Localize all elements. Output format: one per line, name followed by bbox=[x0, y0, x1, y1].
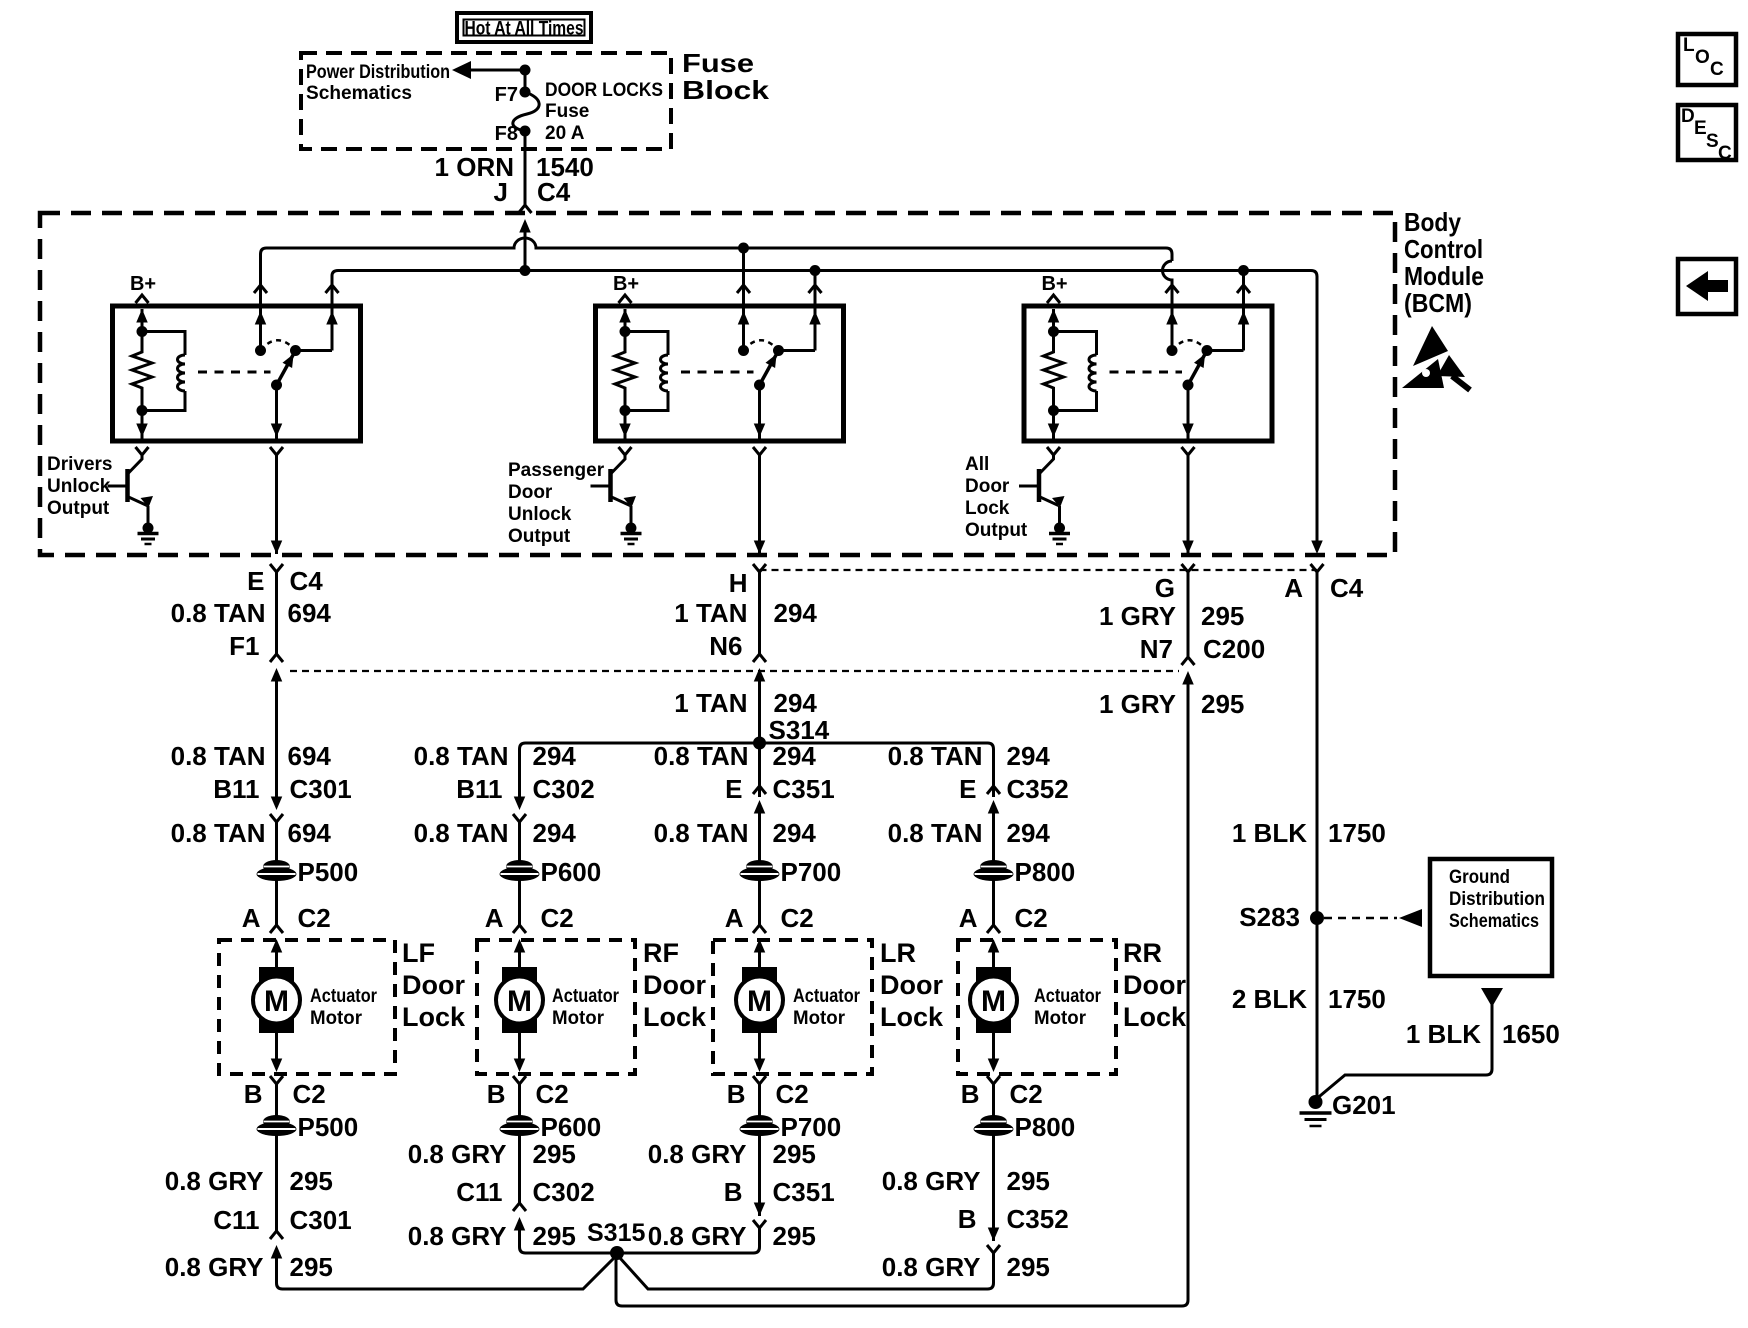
wire LF motor return upper bbox=[275, 1084, 278, 1119]
svg-text:P700: P700 bbox=[781, 1112, 842, 1142]
svg-text:RR: RR bbox=[1123, 938, 1162, 968]
svg-text:M: M bbox=[981, 985, 1006, 1018]
switch armature K1 bbox=[277, 351, 296, 386]
icon box back-arrow bbox=[1678, 259, 1736, 314]
coil relay K1 bbox=[142, 332, 185, 356]
wire switch output K3 bbox=[1187, 385, 1190, 441]
svg-text:0.8 TAN: 0.8 TAN bbox=[888, 818, 983, 848]
svg-text:1 BLK: 1 BLK bbox=[1406, 1019, 1481, 1049]
svg-text:Lock: Lock bbox=[643, 1002, 707, 1032]
connector coil output below K1 bbox=[136, 447, 149, 455]
svg-text:A: A bbox=[959, 903, 978, 933]
svg-text:B11: B11 bbox=[456, 774, 502, 804]
svg-text:0.8 TAN: 0.8 TAN bbox=[171, 598, 266, 628]
svg-text:Motor: Motor bbox=[310, 1008, 363, 1029]
coupling link K1 bbox=[198, 371, 271, 374]
wire RR mid bbox=[992, 813, 995, 863]
LF door lock dashed box bbox=[219, 940, 395, 1074]
svg-text:C200: C200 bbox=[1203, 634, 1265, 664]
wire coil to output K2 bbox=[624, 411, 627, 442]
actuator motor M (RR) bbox=[976, 967, 1011, 1033]
svg-text:1650: 1650 bbox=[1502, 1019, 1560, 1049]
svg-text:C2: C2 bbox=[1015, 903, 1048, 933]
svg-text:2 BLK: 2 BLK bbox=[1232, 984, 1307, 1014]
coil relay K2 bbox=[625, 332, 668, 356]
svg-text:Passenger: Passenger bbox=[508, 460, 605, 481]
connector P500 (top) bbox=[263, 860, 290, 873]
actuator motor M (RF) bbox=[502, 967, 537, 1033]
connector P800 (bottom) bbox=[980, 1115, 1007, 1128]
svg-text:A: A bbox=[242, 903, 261, 933]
svg-text:B11: B11 bbox=[213, 774, 259, 804]
svg-text:Fuse: Fuse bbox=[545, 101, 589, 122]
svg-text:294: 294 bbox=[533, 741, 577, 771]
svg-text:LR: LR bbox=[880, 938, 916, 968]
svg-text:0.8 GRY: 0.8 GRY bbox=[882, 1252, 981, 1282]
svg-text:C2: C2 bbox=[298, 903, 331, 933]
svg-text:Body: Body bbox=[1404, 207, 1461, 237]
svg-text:E: E bbox=[959, 774, 976, 804]
svg-text:Output: Output bbox=[508, 526, 571, 547]
C4 connector dashed line bbox=[760, 569, 1318, 571]
svg-text:0.8 GRY: 0.8 GRY bbox=[882, 1166, 981, 1196]
connector F1 at C200 bbox=[270, 654, 283, 662]
svg-text:294: 294 bbox=[773, 741, 817, 771]
svg-text:B: B bbox=[724, 1177, 743, 1207]
wire into LF motor bbox=[275, 952, 278, 967]
svg-text:P500: P500 bbox=[298, 857, 359, 887]
connector C351 return bbox=[754, 1203, 766, 1217]
wire relay output G inside BCM bbox=[1187, 455, 1190, 554]
wire RR motor out bbox=[992, 1033, 995, 1059]
wire bus2 to relay3 right bbox=[1242, 271, 1245, 297]
wire P700 to A/C2 bbox=[758, 879, 761, 925]
wire RF motor out bbox=[518, 1033, 521, 1059]
svg-text:295: 295 bbox=[1007, 1252, 1050, 1282]
wire switch output K1 bbox=[275, 385, 278, 441]
connector C302 bbox=[514, 797, 526, 811]
node coil top K2 bbox=[620, 326, 631, 337]
connector A/C4 at BCM border bbox=[1311, 541, 1323, 555]
node S314 bbox=[753, 737, 766, 750]
connector J/C4 into BCM bbox=[519, 205, 532, 213]
svg-text:F7: F7 bbox=[495, 84, 518, 106]
wire A below BCM bbox=[1316, 572, 1319, 918]
svg-text:(BCM): (BCM) bbox=[1404, 288, 1472, 318]
svg-text:M: M bbox=[507, 985, 532, 1018]
svg-text:0.8 TAN: 0.8 TAN bbox=[171, 741, 266, 771]
node switch common K3 bbox=[1167, 345, 1178, 356]
wire relay K3 right contact bbox=[1242, 296, 1245, 351]
svg-text:C4: C4 bbox=[537, 177, 571, 207]
svg-text:C301: C301 bbox=[290, 774, 352, 804]
svg-text:B: B bbox=[961, 1079, 980, 1109]
svg-text:Module: Module bbox=[1404, 261, 1484, 291]
svg-text:A: A bbox=[485, 903, 504, 933]
svg-text:Actuator: Actuator bbox=[552, 986, 620, 1007]
svg-text:C2: C2 bbox=[781, 903, 814, 933]
svg-text:C4: C4 bbox=[1330, 573, 1364, 603]
svg-text:Power Distribution: Power Distribution bbox=[306, 62, 450, 83]
wire LF motor out bbox=[275, 1033, 278, 1059]
svg-text:M: M bbox=[747, 985, 772, 1018]
svg-text:295: 295 bbox=[773, 1139, 816, 1169]
svg-text:Drivers: Drivers bbox=[47, 454, 113, 475]
svg-text:0.8 GRY: 0.8 GRY bbox=[408, 1139, 507, 1169]
svg-text:Motor: Motor bbox=[552, 1008, 605, 1029]
svg-text:Motor: Motor bbox=[1034, 1008, 1087, 1029]
svg-text:H: H bbox=[729, 568, 748, 598]
svg-text:294: 294 bbox=[774, 688, 818, 718]
ground for Q3 bbox=[1054, 523, 1065, 534]
actuator motor M (LR) bbox=[742, 967, 777, 1033]
connector G/C4 at BCM border bbox=[1182, 541, 1194, 555]
connector C302 return bbox=[513, 1203, 526, 1211]
connector C352 bbox=[987, 786, 1000, 794]
svg-text:B+: B+ bbox=[613, 273, 639, 295]
node switch pivot K3 bbox=[1202, 345, 1213, 356]
svg-text:Lock: Lock bbox=[402, 1002, 466, 1032]
node armature K3 bbox=[1183, 380, 1194, 391]
connector C301 bbox=[271, 797, 283, 811]
wire LF to P500 bbox=[275, 822, 278, 863]
svg-text:C302: C302 bbox=[533, 1177, 595, 1207]
svg-text:C2: C2 bbox=[1010, 1079, 1043, 1109]
svg-text:S283: S283 bbox=[1239, 902, 1300, 932]
svg-text:0.8 TAN: 0.8 TAN bbox=[414, 818, 509, 848]
resistor relay K3 bbox=[1044, 332, 1064, 411]
svg-text:N6: N6 bbox=[709, 631, 742, 661]
wire LR tail bbox=[617, 1228, 760, 1253]
svg-text:RF: RF bbox=[643, 938, 679, 968]
transistor Q3 bbox=[1037, 469, 1042, 502]
wire switch output K2 bbox=[758, 385, 761, 441]
switch armature K2 bbox=[760, 351, 779, 386]
Ground Distribution Schematics box bbox=[1430, 859, 1552, 976]
icon box LOC bbox=[1678, 34, 1736, 85]
wire relay K3 middle bbox=[1171, 296, 1174, 351]
connector C301 return bbox=[270, 1231, 283, 1239]
node armature K1 bbox=[271, 380, 282, 391]
wire relay K1 right contact bbox=[331, 296, 334, 351]
connector P700 (top) bbox=[746, 860, 773, 873]
connector P700 (bottom) bbox=[746, 1115, 773, 1128]
wire 1650 from Ground Distribution bbox=[1318, 1004, 1493, 1098]
svg-text:0.8 TAN: 0.8 TAN bbox=[171, 818, 266, 848]
wire S315 to G return bbox=[616, 678, 1188, 1306]
svg-text:0.8 GRY: 0.8 GRY bbox=[648, 1139, 747, 1169]
RF door lock dashed box bbox=[477, 940, 635, 1074]
svg-text:Control: Control bbox=[1404, 234, 1483, 264]
svg-text:0.8 TAN: 0.8 TAN bbox=[888, 741, 983, 771]
svg-text:Door: Door bbox=[965, 476, 1010, 497]
svg-text:295: 295 bbox=[1007, 1166, 1050, 1196]
wire P500 to A/C2 bbox=[275, 879, 278, 925]
svg-text:Actuator: Actuator bbox=[1034, 986, 1102, 1007]
coupling link K3 bbox=[1110, 371, 1183, 374]
svg-text:G: G bbox=[1155, 573, 1175, 603]
svg-text:C302: C302 bbox=[533, 774, 595, 804]
ground for Q1 bbox=[143, 523, 154, 534]
svg-text:P700: P700 bbox=[781, 857, 842, 887]
wire LR motor return upper bbox=[758, 1084, 761, 1119]
svg-text:694: 694 bbox=[288, 741, 332, 771]
svg-text:Door: Door bbox=[1123, 970, 1186, 1000]
wire bus2 to relay2 right bbox=[814, 271, 817, 297]
svg-text:C2: C2 bbox=[776, 1079, 809, 1109]
svg-text:O: O bbox=[1695, 47, 1710, 68]
wire relay output E inside BCM bbox=[275, 455, 278, 554]
wire relay output H inside BCM bbox=[758, 455, 761, 554]
svg-text:Door: Door bbox=[643, 970, 706, 1000]
wire E to LF branch bbox=[275, 681, 278, 797]
coupling link K2 bbox=[681, 371, 754, 374]
svg-text:C2: C2 bbox=[536, 1079, 569, 1109]
arrow to Power Distribution Schematics bbox=[452, 61, 471, 79]
connector E/C4 at BCM border bbox=[271, 541, 283, 555]
connector B+ into relay K2 bbox=[619, 295, 632, 303]
svg-text:B+: B+ bbox=[130, 273, 156, 295]
svg-text:P800: P800 bbox=[1015, 857, 1076, 887]
connector switch output below K1 bbox=[270, 447, 283, 455]
svg-text:694: 694 bbox=[288, 818, 332, 848]
svg-text:P600: P600 bbox=[541, 1112, 602, 1142]
svg-text:1 TAN: 1 TAN bbox=[674, 598, 747, 628]
node coil top K3 bbox=[1048, 326, 1059, 337]
svg-text:0.8 TAN: 0.8 TAN bbox=[654, 818, 749, 848]
svg-text:694: 694 bbox=[288, 598, 332, 628]
node G201 bbox=[1309, 1095, 1323, 1109]
RR door lock dashed box bbox=[958, 940, 1116, 1074]
svg-text:B: B bbox=[487, 1079, 506, 1109]
wire RF motor return upper bbox=[518, 1084, 521, 1119]
node coil bottom K3 bbox=[1048, 405, 1059, 416]
wire LR return mid bbox=[758, 1134, 761, 1216]
arrow out of Ground Distribution box bbox=[1481, 988, 1503, 1007]
connector N6 at C200 bbox=[753, 654, 766, 662]
wire RR motor return upper bbox=[992, 1084, 995, 1119]
svg-text:1750: 1750 bbox=[1328, 984, 1386, 1014]
svg-text:1750: 1750 bbox=[1328, 818, 1386, 848]
svg-text:C352: C352 bbox=[1007, 1204, 1069, 1234]
svg-text:1 TAN: 1 TAN bbox=[674, 688, 747, 718]
svg-text:C: C bbox=[1710, 59, 1724, 80]
connector P600 (top) bbox=[506, 860, 533, 873]
wire E below BCM bbox=[275, 572, 278, 655]
connector B+ into relay K3 bbox=[1047, 295, 1060, 303]
wire RF mid bbox=[518, 822, 521, 863]
svg-text:F1: F1 bbox=[229, 631, 259, 661]
connector N7 at C200 bbox=[1182, 657, 1195, 665]
connector coil output below K2 bbox=[619, 447, 632, 455]
wire RF return mid bbox=[518, 1134, 521, 1204]
svg-text:Door: Door bbox=[402, 970, 465, 1000]
dashed reference to Ground Distribution bbox=[1324, 917, 1397, 920]
svg-text:C4: C4 bbox=[290, 566, 324, 596]
ESD sensitivity symbol bbox=[1413, 326, 1448, 366]
svg-text:0.8 GRY: 0.8 GRY bbox=[408, 1221, 507, 1251]
upper B+ bus bbox=[261, 238, 1173, 296]
wire relay K2 middle bbox=[742, 296, 745, 351]
ground symbol G201 bbox=[1300, 1111, 1332, 1115]
svg-text:E: E bbox=[247, 566, 264, 596]
S314 distribution bus bbox=[520, 743, 994, 797]
transistor Q1 bbox=[125, 469, 130, 502]
wire LR mid bbox=[758, 813, 761, 863]
svg-text:295: 295 bbox=[290, 1166, 333, 1196]
svg-text:J: J bbox=[494, 177, 508, 207]
svg-text:D: D bbox=[1681, 106, 1695, 127]
connector P600 (bottom) bbox=[506, 1115, 533, 1128]
svg-text:C11: C11 bbox=[213, 1205, 259, 1235]
wire into RR motor bbox=[992, 952, 995, 967]
svg-text:Motor: Motor bbox=[793, 1008, 846, 1029]
svg-text:Block: Block bbox=[682, 75, 770, 105]
node: bus tap relay 2 coil bbox=[738, 243, 749, 254]
svg-text:Distribution: Distribution bbox=[1449, 889, 1545, 910]
wire G below BCM bbox=[1187, 572, 1190, 658]
svg-text:295: 295 bbox=[533, 1221, 576, 1251]
connector A/C2 LR bbox=[753, 925, 766, 933]
node switch common K2 bbox=[738, 345, 749, 356]
svg-text:B: B bbox=[727, 1079, 746, 1109]
wire relay K2 right contact bbox=[814, 296, 817, 351]
svg-text:C351: C351 bbox=[773, 774, 835, 804]
icon box DESC bbox=[1678, 105, 1736, 160]
svg-text:P500: P500 bbox=[298, 1112, 359, 1142]
wire into RF motor bbox=[518, 952, 521, 967]
fuse F8 DOOR LOCKS 20 A bbox=[513, 92, 539, 131]
svg-text:B+: B+ bbox=[1041, 273, 1067, 295]
node coil bottom K1 bbox=[137, 405, 148, 416]
node: tap junction bbox=[520, 65, 531, 76]
switch armature K3 bbox=[1188, 351, 1207, 386]
svg-text:LF: LF bbox=[402, 938, 435, 968]
wire P800 to A/C2 bbox=[992, 879, 995, 925]
connector P500 (bottom) bbox=[263, 1115, 290, 1128]
svg-text:Output: Output bbox=[965, 520, 1028, 541]
svg-text:0.8 GRY: 0.8 GRY bbox=[165, 1252, 264, 1282]
svg-text:Schematics: Schematics bbox=[306, 83, 412, 104]
connector coil output below K3 bbox=[1047, 447, 1060, 455]
switch throw arc K3 bbox=[1172, 340, 1207, 350]
svg-text:Lock: Lock bbox=[880, 1002, 944, 1032]
svg-text:B: B bbox=[244, 1079, 263, 1109]
node switch pivot K1 bbox=[290, 345, 301, 356]
svg-text:1 GRY: 1 GRY bbox=[1099, 601, 1176, 631]
connector switch output below K2 bbox=[753, 447, 766, 455]
svg-text:P800: P800 bbox=[1015, 1112, 1076, 1142]
coil relay K3 bbox=[1054, 332, 1097, 356]
svg-text:E: E bbox=[1694, 118, 1707, 139]
node coil top K1 bbox=[137, 326, 148, 337]
label box: Hot At All Times bbox=[457, 13, 591, 42]
relay K2 box bbox=[596, 306, 844, 441]
LR door lock dashed box bbox=[713, 940, 872, 1074]
svg-text:F8: F8 bbox=[495, 123, 518, 145]
wire RR return mid bbox=[992, 1134, 995, 1241]
svg-text:Unlock: Unlock bbox=[508, 504, 572, 525]
svg-text:E: E bbox=[725, 774, 742, 804]
svg-text:295: 295 bbox=[773, 1221, 816, 1251]
svg-text:L: L bbox=[1683, 35, 1695, 56]
actuator motor M (LF) bbox=[259, 967, 294, 1033]
connector H/C4 at BCM border bbox=[754, 541, 766, 555]
relay K3 box bbox=[1024, 306, 1272, 441]
svg-text:Lock: Lock bbox=[1123, 1002, 1187, 1032]
connector switch output below K3 bbox=[1182, 447, 1195, 455]
svg-text:294: 294 bbox=[773, 818, 817, 848]
svg-text:295: 295 bbox=[290, 1252, 333, 1282]
wire LR motor out bbox=[758, 1033, 761, 1059]
node: feed joins lower bus bbox=[520, 265, 531, 276]
node: bus tap relay3 switch bbox=[1238, 265, 1249, 276]
node coil bottom K2 bbox=[620, 405, 631, 416]
wire RR tail bbox=[620, 1253, 994, 1289]
svg-text:294: 294 bbox=[533, 818, 577, 848]
svg-text:295: 295 bbox=[1201, 601, 1244, 631]
svg-text:Door: Door bbox=[508, 482, 553, 503]
svg-text:1 BLK: 1 BLK bbox=[1232, 818, 1307, 848]
svg-text:C2: C2 bbox=[541, 903, 574, 933]
node armature K2 bbox=[754, 380, 765, 391]
transistor Q2 bbox=[608, 469, 613, 502]
wire P600 to A/C2 bbox=[518, 879, 521, 925]
node switch pivot K2 bbox=[773, 345, 784, 356]
svg-text:Hot At All Times: Hot At All Times bbox=[465, 19, 584, 40]
svg-text:294: 294 bbox=[1007, 741, 1051, 771]
svg-text:0.8 GRY: 0.8 GRY bbox=[165, 1166, 264, 1196]
node S283 bbox=[1310, 911, 1324, 925]
wire coil to output K3 bbox=[1052, 411, 1055, 442]
connector P800 (top) bbox=[980, 860, 1007, 873]
svg-text:C2: C2 bbox=[293, 1079, 326, 1109]
wire feed into BCM bbox=[524, 225, 527, 271]
svg-text:N7: N7 bbox=[1140, 634, 1173, 664]
svg-text:295: 295 bbox=[1201, 689, 1244, 719]
svg-text:1 GRY: 1 GRY bbox=[1099, 689, 1176, 719]
svg-text:C11: C11 bbox=[456, 1177, 502, 1207]
node S315 bbox=[610, 1246, 624, 1260]
svg-text:294: 294 bbox=[1007, 818, 1051, 848]
connector B+ into relay K1 bbox=[136, 295, 149, 303]
relay K1 box bbox=[113, 306, 361, 441]
svg-text:C: C bbox=[1718, 143, 1732, 164]
wire H to S314 bbox=[758, 681, 761, 743]
wire tap to F7 bbox=[524, 70, 527, 92]
pin F7 bbox=[520, 87, 531, 98]
wire coil to output K1 bbox=[141, 411, 144, 442]
svg-text:S315: S315 bbox=[587, 1219, 645, 1247]
svg-text:0.8 GRY: 0.8 GRY bbox=[648, 1221, 747, 1251]
wire LR from S314 bbox=[758, 743, 761, 797]
svg-text:20 A: 20 A bbox=[545, 123, 585, 144]
svg-text:A: A bbox=[725, 903, 744, 933]
svg-text:C351: C351 bbox=[773, 1177, 835, 1207]
wire RF tail bbox=[520, 1230, 618, 1253]
svg-text:C352: C352 bbox=[1007, 774, 1069, 804]
svg-text:295: 295 bbox=[533, 1139, 576, 1169]
connector C200 line bbox=[290, 670, 1179, 672]
svg-text:Ground: Ground bbox=[1449, 867, 1510, 888]
connector C352 return bbox=[988, 1228, 1000, 1242]
arrow into S283 bbox=[1399, 909, 1422, 927]
svg-text:294: 294 bbox=[774, 598, 818, 628]
svg-text:All: All bbox=[965, 454, 989, 475]
connector A/C2 RR bbox=[987, 925, 1000, 933]
svg-text:0.8 TAN: 0.8 TAN bbox=[414, 741, 509, 771]
svg-text:M: M bbox=[264, 985, 289, 1018]
